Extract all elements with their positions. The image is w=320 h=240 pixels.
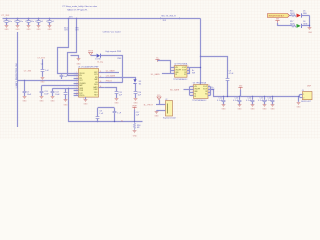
- resistor R16 0R vertical: [133, 122, 135, 131]
- junction on 3V3 rail at C4: [38, 18, 39, 19]
- ground below C14: [251, 104, 255, 106]
- ground below C12: [222, 104, 226, 106]
- capacitor C9b 1uF: [114, 108, 116, 112]
- svg-text:TPS27081ADDC: TPS27081ADDC: [173, 78, 188, 81]
- svg-text:RA220 V1 PF (q4t) PL: RA220 V1 PF (q4t) PL: [67, 9, 88, 12]
- svg-text:GND: GND: [251, 109, 256, 111]
- svg-text:2: 2: [173, 69, 174, 71]
- svg-text:11: 11: [100, 71, 102, 73]
- svg-text:RED: RED: [303, 13, 308, 15]
- wire SD_GATE stub: [184, 89, 190, 91]
- svg-text:GND: GND: [41, 82, 46, 84]
- svg-text:GND: GND: [308, 32, 313, 34]
- svg-text:R2: R2: [205, 91, 207, 93]
- junction on 3V3 rail at C1: [6, 18, 7, 19]
- wire flag to diode D1: [91, 55, 97, 57]
- svg-text:UL_GATE: UL_GATE: [106, 69, 116, 72]
- wire U3 out to rail: [211, 90, 214, 97]
- svg-text:CT_3V3: CT_3V3: [1, 15, 10, 17]
- junction C16 on output rail: [272, 96, 273, 97]
- svg-text:4.7uF: 4.7uF: [217, 100, 223, 102]
- svg-text:10: 10: [76, 94, 78, 96]
- junction C8 on bottom rail: [97, 121, 98, 122]
- svg-text:GND: GND: [16, 29, 21, 31]
- svg-text:Keystone 1042: Keystone 1042: [163, 117, 176, 120]
- svg-text:GND: GND: [115, 103, 120, 105]
- junction C14 on output rail: [252, 96, 253, 97]
- svg-text:VOUT: VOUT: [203, 89, 207, 91]
- ground below R16: [133, 130, 137, 132]
- connector J1 output: [303, 92, 313, 100]
- svg-text:U2 TPS27081A: U2 TPS27081A: [174, 63, 188, 66]
- svg-text:4: 4: [192, 94, 193, 96]
- junction C13 on output rail: [239, 96, 240, 97]
- svg-text:U1 LTC4040EUFD#PBF: U1 LTC4040EUFD#PBF: [78, 66, 99, 68]
- junction rail to wire B: [76, 18, 77, 19]
- svg-text:4.7uF: 4.7uF: [266, 100, 272, 102]
- svg-text:1_BATT_PROTECTED_SW: 1_BATT_PROTECTED_SW: [15, 63, 18, 88]
- transistor U2 load switch: [175, 66, 188, 78]
- capacitor C2 100n: [17, 18, 19, 20]
- svg-text:1: 1: [192, 85, 193, 87]
- junction rail to wire A: [68, 18, 69, 19]
- wire U2 gate stub: [162, 73, 170, 75]
- wire stub to ground: [71, 56, 79, 59]
- op-amp U1 LTC4040 charger IC: [79, 69, 99, 98]
- svg-text:GND: GND: [263, 109, 268, 111]
- ground below C15: [263, 104, 267, 106]
- svg-text:C18/C17 use model: C18/C17 use model: [103, 31, 121, 33]
- svg-text:330R: 330R: [290, 13, 295, 15]
- wire D6 to node: [301, 25, 309, 27]
- capacitor C10 1uF: [134, 91, 138, 93]
- junction LED common: [309, 25, 310, 26]
- junction C12 on output rail: [223, 96, 224, 97]
- ground below C3: [27, 25, 31, 27]
- svg-text:VOUT: VOUT: [182, 67, 186, 69]
- capacitor C12 4.7uF: [223, 97, 225, 100]
- ground below C2: [16, 25, 20, 27]
- svg-text:VIN: VIN: [175, 67, 178, 69]
- resistor R17: [291, 25, 296, 27]
- svg-text:SD_GATE: SD_GATE: [170, 89, 180, 92]
- svg-text:M3_TX_3V3_R: M3_TX_3V3_R: [162, 15, 177, 17]
- svg-text:C3: C3: [25, 21, 27, 23]
- wire U1 pin to C11: [105, 88, 117, 92]
- svg-text:VIN: VIN: [194, 86, 197, 88]
- wire PROG: [104, 82, 122, 84]
- svg-text:100n: 100n: [30, 21, 34, 23]
- capacitor C4 1uF: [38, 18, 40, 20]
- wire J2 pin2 left: [157, 110, 163, 112]
- junction mid vertical: [200, 56, 201, 57]
- svg-text:PROG: PROG: [106, 81, 112, 83]
- ground at J1: [297, 102, 301, 104]
- svg-text:C6: C6: [41, 63, 43, 65]
- svg-text:GND: GND: [222, 109, 227, 111]
- wire flag to R17: [277, 23, 279, 26]
- svg-text:GND: GND: [271, 109, 276, 111]
- svg-text:VOUT: VOUT: [203, 86, 207, 88]
- wire UL_GATE: [104, 72, 119, 74]
- capacitor C16 floating: [61, 73, 63, 75]
- svg-text:100n: 100n: [8, 21, 12, 23]
- wire D1 to PMF node: [101, 56, 123, 83]
- capacitor C5b 10uF: [24, 81, 26, 91]
- svg-text:B_chg: B_chg: [98, 61, 103, 63]
- wire flag to output rail: [240, 89, 242, 96]
- svg-text:3: 3: [173, 72, 174, 74]
- ground below C4: [37, 25, 41, 27]
- svg-text:330R: 330R: [290, 23, 295, 25]
- svg-text:BAT: BAT: [79, 84, 82, 87]
- svg-text:PROG: PROG: [79, 95, 85, 97]
- svg-text:1: 1: [173, 66, 174, 68]
- wire U1 pin6 left: [42, 85, 79, 87]
- port HEARTBEAT: [268, 14, 290, 18]
- ground below C5: [48, 25, 52, 27]
- svg-text:GND: GND: [155, 116, 160, 118]
- capacitor C14 4.7uF: [252, 97, 254, 100]
- svg-text:2: 2: [303, 97, 304, 99]
- capacitor C1 100n: [6, 18, 8, 20]
- wire flag to rail: [134, 109, 136, 121]
- junction U1 area to bottom rail: [68, 88, 69, 89]
- svg-text:RST: RST: [94, 94, 97, 96]
- wire A rail to U1 pin1: [58, 19, 79, 74]
- svg-text:C5: C5: [46, 21, 48, 23]
- junction CT_3V3 wire: [24, 80, 25, 81]
- capacitor C13 4.7uF: [239, 97, 241, 100]
- diode D3 vertical: [133, 79, 136, 82]
- svg-text:CH_GATE: CH_GATE: [106, 75, 116, 78]
- capacitor C8 1uF up: [97, 119, 99, 122]
- wire to bottom rail: [69, 89, 143, 122]
- ground below C1: [5, 25, 9, 27]
- svg-text:HEARTBEAT: HEARTBEAT: [269, 14, 285, 17]
- wire U2 out to vertical: [190, 67, 201, 69]
- svg-text:High impede PMF: High impede PMF: [106, 51, 122, 53]
- wire J2 pin1 left: [156, 104, 162, 106]
- svg-text:D1 SK: D1 SK: [95, 59, 101, 61]
- svg-text:GND: GND: [51, 101, 56, 103]
- capacitor C13 10uF: [41, 86, 43, 91]
- svg-text:3V3: 3V3: [163, 20, 166, 22]
- svg-text:GND: GND: [297, 106, 302, 108]
- LED D6 green: [297, 24, 301, 28]
- svg-text:4.7uF: 4.7uF: [233, 100, 239, 102]
- svg-text:GND: GND: [27, 29, 32, 31]
- tick mark 2: [179, 17, 181, 19]
- svg-text:2: 2: [192, 88, 193, 90]
- ground at J2 pin2: [156, 110, 158, 113]
- transistor U3 load switch: [194, 85, 209, 99]
- svg-text:BAT: BAT: [94, 78, 97, 81]
- junction on 3V3 rail at C2: [17, 18, 18, 19]
- capacitor C14 10uF: [52, 88, 54, 91]
- ground GND middle-left: [77, 58, 81, 60]
- svg-text:100n: 100n: [19, 21, 23, 23]
- wire CT_3V3 to U1: [18, 80, 79, 82]
- ground below C15: [64, 99, 68, 101]
- ground below C13: [238, 104, 242, 106]
- ground below C13: [40, 96, 44, 98]
- junction C9 rail: [227, 96, 228, 97]
- svg-text:1: 1: [303, 94, 304, 96]
- wire flag to U2: [158, 61, 171, 68]
- svg-text:3V3: 3V3: [69, 16, 72, 18]
- svg-text:VBAT: VBAT: [132, 104, 138, 107]
- svg-text:R2: R2: [184, 72, 186, 74]
- capacitor C9 4.7uF inline: [226, 78, 230, 80]
- svg-text:GND: GND: [238, 109, 243, 111]
- svg-text:C2: C2: [14, 21, 16, 23]
- svg-text:4.7uF: 4.7uF: [258, 100, 264, 102]
- svg-text:UL_GATE: UL_GATE: [151, 73, 161, 76]
- ground below LEDs: [308, 27, 312, 29]
- capacitor C16 4.7uF: [272, 97, 274, 100]
- ground below C12: [41, 77, 45, 79]
- wire output rail: [213, 96, 300, 98]
- capacitor C12 1nF string: [42, 59, 44, 69]
- junction on 3V3 rail at C3: [28, 18, 29, 19]
- capacitor C11 1uF: [115, 91, 119, 93]
- svg-text:3: 3: [192, 91, 193, 93]
- wire J1 ground drop: [298, 97, 300, 102]
- svg-text:C4: C4: [35, 21, 37, 23]
- svg-text:12: 12: [100, 76, 102, 78]
- ground below C14: [51, 96, 55, 98]
- svg-text:4.7uF: 4.7uF: [246, 100, 252, 102]
- svg-text:ON/OFF: ON/OFF: [194, 89, 200, 91]
- diode D1: [97, 54, 101, 58]
- svg-text:C1: C1: [3, 21, 5, 23]
- capacitor C15 4.7uF: [264, 97, 266, 100]
- capacitor C3 100n: [28, 18, 30, 20]
- svg-text:R1: R1: [194, 93, 196, 95]
- svg-text:GND: GND: [40, 101, 45, 103]
- svg-text:PT Sleep_mode_half/y+Oder too: PT Sleep_mode_half/y+Oder too slow: [63, 5, 98, 8]
- svg-text:GND: GND: [64, 104, 69, 106]
- svg-text:SW: SW: [192, 73, 195, 75]
- svg-text:3V3: 3V3: [75, 30, 78, 32]
- svg-text:GND: GND: [23, 101, 28, 103]
- svg-text:CT_3V3: CT_3V3: [24, 70, 32, 72]
- svg-text:GND: GND: [77, 63, 82, 65]
- wire vertical from rail corner: [200, 18, 202, 84]
- svg-text:13: 13: [100, 81, 102, 83]
- capacitor C15 small: [65, 88, 67, 92]
- svg-text:GND: GND: [5, 29, 10, 31]
- junction U2 out: [200, 67, 201, 68]
- resistor R15: [291, 15, 296, 17]
- svg-text:GND: GND: [48, 29, 53, 31]
- svg-text:14: 14: [100, 86, 102, 88]
- wire bracket C8 to C9b: [98, 107, 115, 109]
- svg-text:TPS27081ADDC: TPS27081ADDC: [192, 99, 207, 102]
- wire LED common vertical: [309, 16, 311, 26]
- svg-text:GND: GND: [37, 29, 42, 31]
- ground below C10: [134, 98, 138, 100]
- ground below U1: [85, 97, 87, 99]
- wire B rail to U1 pin2: [68, 19, 79, 76]
- junction C15 on output rail: [264, 96, 265, 97]
- tick mark: [160, 17, 162, 19]
- ground below C16: [271, 104, 275, 106]
- svg-text:B+_PROT: B+_PROT: [144, 105, 154, 107]
- connector J2 battery: [166, 101, 173, 117]
- svg-text:STAT: STAT: [94, 88, 98, 91]
- wire top 3V3 rail: [3, 18, 201, 20]
- LED D5 red: [297, 14, 301, 18]
- svg-text:CT_3V3: CT_3V3: [37, 57, 45, 59]
- svg-text:3V3: 3V3: [64, 30, 67, 32]
- svg-text:R1: R1: [175, 74, 177, 76]
- svg-text:MICRO-FIT: MICRO-FIT: [301, 101, 312, 103]
- wire D5 to node: [301, 15, 309, 17]
- wire CH_GATE: [105, 78, 136, 80]
- junction R16 on rail: [134, 121, 135, 122]
- svg-text:R2: R2: [194, 96, 196, 98]
- wire node to ground: [309, 26, 311, 28]
- svg-text:GND: GND: [84, 104, 89, 106]
- wire port to R15: [290, 15, 292, 17]
- wire flag to J2 pin1: [159, 100, 161, 105]
- ground below C5b: [23, 96, 27, 98]
- wire to C9 column: [201, 57, 228, 79]
- svg-text:4.7uF: 4.7uF: [229, 73, 235, 75]
- capacitor C5 1uF: [49, 18, 51, 20]
- svg-text:U3 TPS27081A: U3 TPS27081A: [193, 82, 207, 85]
- ground below C11: [115, 98, 119, 100]
- svg-text:VOUT: VOUT: [182, 69, 186, 71]
- junction J1 gnd drop: [298, 96, 299, 97]
- wire U1 pin7 left: [53, 88, 79, 90]
- vertical net wire with rotated label: [17, 32, 19, 127]
- svg-text:ON/OFF: ON/OFF: [175, 69, 181, 71]
- junction C9b on bottom rail: [114, 121, 115, 122]
- junction on 3V3 rail at C5: [49, 18, 50, 19]
- svg-text:SW: SW: [211, 89, 214, 91]
- svg-text:GND: GND: [133, 135, 138, 137]
